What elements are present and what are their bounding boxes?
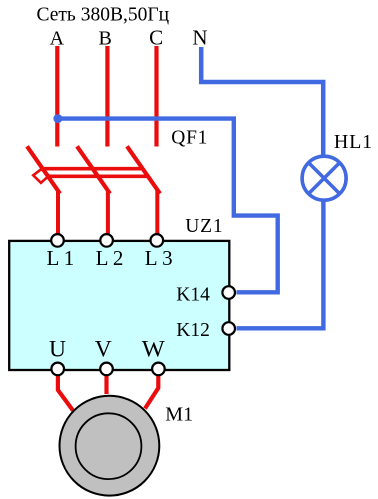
terminal L3 — [151, 234, 164, 247]
QF1 pole 3 lower stub — [155, 190, 159, 234]
wire: lamp HL1 bottom to K12 — [237, 199, 324, 328]
svg-text:HL1: HL1 — [334, 131, 373, 153]
motor M1 outer circle — [60, 396, 160, 496]
QF1 blade pole 3 — [127, 146, 160, 193]
wire: phase A junction to K14 — [56, 119, 278, 293]
lamp HL1 — [302, 156, 346, 200]
QF1 linkage bar lower — [47, 175, 148, 179]
svg-text:L 2: L 2 — [96, 246, 124, 270]
wire: V to motor — [104, 376, 108, 395]
wire: phase B vertical — [105, 46, 109, 147]
wire: N line from N label to lamp HL1 — [201, 47, 323, 158]
QF1 blade pole 1 — [27, 146, 60, 193]
svg-text:K14: K14 — [176, 285, 210, 306]
svg-text:L 3: L 3 — [145, 246, 173, 270]
motor M1 inner circle — [76, 413, 142, 479]
svg-text:С: С — [149, 25, 163, 49]
wire: phase A vertical — [55, 46, 59, 147]
svg-text:W: W — [142, 336, 166, 362]
terminal L2 — [100, 234, 113, 247]
terminal W — [152, 363, 165, 376]
wire: W to motor — [145, 376, 158, 409]
wire: U to motor — [58, 376, 73, 411]
svg-text:Сеть 380В,50Гц: Сеть 380В,50Гц — [37, 5, 170, 26]
terminal U — [51, 363, 64, 376]
QF1 pole 2 lower stub — [106, 190, 110, 234]
QF1 pole 1 lower stub — [56, 190, 60, 234]
svg-text:М1: М1 — [165, 404, 193, 426]
svg-text:U: U — [49, 336, 66, 362]
svg-text:N: N — [192, 25, 207, 49]
terminal K12 — [222, 322, 235, 335]
frequency converter box UZ1 — [9, 241, 229, 370]
terminal L1 — [51, 234, 64, 247]
svg-text:K12: K12 — [176, 320, 210, 341]
terminal K14 — [222, 286, 235, 299]
svg-text:QF1: QF1 — [171, 128, 208, 149]
wire: phase C vertical — [154, 46, 158, 147]
QF1 blade pole 2 — [77, 146, 110, 193]
QF1 release square — [33, 169, 49, 183]
svg-text:UZ1: UZ1 — [185, 216, 223, 237]
svg-text:В: В — [99, 27, 112, 49]
svg-text:L 1: L 1 — [47, 246, 75, 270]
terminal V — [100, 363, 113, 376]
circuit breaker QF1 — [27, 146, 160, 233]
QF1 linkage bar upper — [43, 167, 143, 171]
junction node on phase A — [53, 114, 62, 123]
svg-text:V: V — [95, 336, 112, 362]
